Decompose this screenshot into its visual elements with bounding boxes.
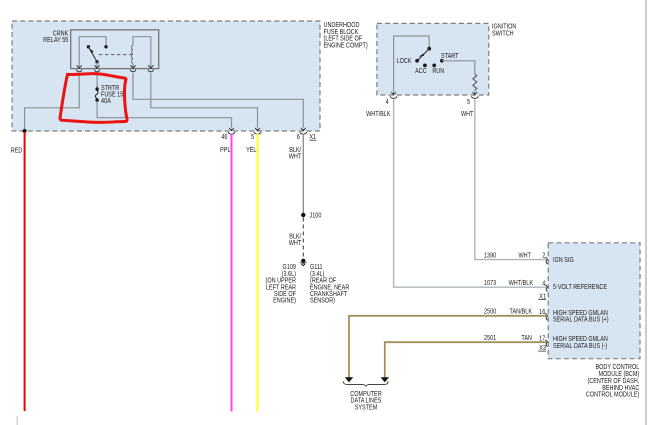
splice J100 bbox=[301, 213, 305, 217]
relay coil top wire to pin 4 bbox=[133, 37, 151, 69]
svg-text:PPL: PPL bbox=[220, 146, 231, 154]
svg-text:HIGH SPEED GMLANSERIAL DATA BU: HIGH SPEED GMLANSERIAL DATA BUS (-) bbox=[553, 336, 608, 351]
relay coil L1 bbox=[132, 45, 134, 63]
svg-text:ACC: ACC bbox=[415, 67, 427, 75]
BCM pin 2 connector symbol bbox=[545, 257, 548, 264]
svg-text:1390: 1390 bbox=[484, 252, 497, 260]
relay actuation dashed link bbox=[99, 54, 134, 56]
relay fixed contact node bbox=[104, 45, 107, 48]
svg-text:START: START bbox=[441, 52, 459, 60]
svg-text:IGNITIONSWITCH: IGNITIONSWITCH bbox=[492, 23, 517, 38]
svg-text:5-VOLT REFERENCE: 5-VOLT REFERENCE bbox=[553, 284, 607, 292]
svg-text:5: 5 bbox=[251, 133, 254, 141]
svg-text:4: 4 bbox=[542, 280, 545, 288]
ignition switch pivot node bbox=[427, 47, 431, 51]
svg-text:1073: 1073 bbox=[484, 279, 497, 287]
brace computer data lines bbox=[343, 381, 388, 386]
ignition switch wire resistor to pin 5 bbox=[474, 90, 476, 95]
svg-text:WHT/BLK: WHT/BLK bbox=[509, 279, 534, 287]
relay switch lever bbox=[88, 47, 97, 62]
ignition switch resistor bbox=[473, 74, 477, 90]
BCM pin 16 connector symbol bbox=[545, 313, 548, 320]
fuse STRTR 15 symbol bbox=[95, 86, 98, 102]
node battery feed junction bbox=[23, 129, 27, 133]
ground G109/G111 symbol bbox=[300, 259, 307, 266]
svg-text:16: 16 bbox=[539, 308, 546, 316]
fuse block pin 46 connector symbol bbox=[228, 128, 235, 134]
red annotation loop around STRTR fuse bbox=[60, 74, 127, 123]
arrowhead data bus + bbox=[345, 377, 353, 382]
svg-text:HIGH SPEED GMLANSERIAL DATA BU: HIGH SPEED GMLANSERIAL DATA BUS (+) bbox=[553, 309, 609, 324]
wire WHT ignition pin5 to BCM bbox=[475, 99, 546, 259]
svg-text:BLK/WHT: BLK/WHT bbox=[289, 146, 302, 160]
svg-text:TAN/BLK: TAN/BLK bbox=[510, 308, 533, 316]
relay pin 4 connector symbol bbox=[148, 65, 153, 72]
wire TAN/BLK data bus + bbox=[349, 316, 546, 378]
svg-text:WHT: WHT bbox=[461, 110, 474, 118]
page border bottom-left tick bbox=[16, 416, 18, 425]
svg-text:46: 46 bbox=[221, 133, 228, 141]
relay pin 2 internal riser bbox=[96, 62, 98, 69]
BCM connector X3 label bbox=[538, 344, 546, 352]
svg-text:J100: J100 bbox=[310, 212, 322, 220]
wire WHT/BLK ignition pin4 to BCM bbox=[394, 99, 546, 287]
body control module BCM box bbox=[548, 243, 640, 359]
svg-text:BLK/WHT: BLK/WHT bbox=[289, 233, 302, 248]
wire BLK/WHT ground leg (dashed) bbox=[302, 218, 304, 259]
wire fuse to pin 46 bbox=[97, 101, 231, 127]
svg-text:6: 6 bbox=[297, 133, 300, 141]
fuse block pin 6 connector symbol bbox=[300, 128, 307, 134]
svg-text:LOCK: LOCK bbox=[397, 58, 413, 66]
wire relay pin1 to battery feed node bbox=[25, 73, 80, 130]
fuse block connector X1 label bbox=[310, 133, 317, 141]
ignition switch wire START to resistor bbox=[442, 61, 475, 74]
svg-text:RED: RED bbox=[11, 147, 23, 155]
svg-text:17: 17 bbox=[539, 335, 546, 343]
svg-text:YEL: YEL bbox=[246, 146, 257, 154]
svg-text:WHT/BLK: WHT/BLK bbox=[366, 110, 391, 118]
svg-text:2500: 2500 bbox=[484, 308, 497, 316]
BCM connector X1 label bbox=[538, 293, 546, 301]
ignition switch internal wire to pin 4 bbox=[394, 36, 430, 95]
ignition switch box bbox=[377, 23, 489, 95]
svg-text:2: 2 bbox=[542, 252, 545, 260]
wire BLK/WHT ground leg (solid) bbox=[302, 134, 304, 213]
ignition switch LOCK contact bbox=[415, 59, 419, 63]
relay coil bottom wire to pin 3 bbox=[132, 63, 134, 69]
ignition switch pin 4 connector symbol bbox=[390, 92, 397, 98]
wire TAN data bus - bbox=[385, 342, 546, 377]
svg-text:IGN SIG: IGN SIG bbox=[553, 256, 574, 264]
relay pin 1 internal wire bbox=[79, 37, 106, 69]
wire RED battery feed bbox=[24, 132, 26, 411]
page border right edge bbox=[645, 0, 647, 425]
wire YEL coil feed bbox=[257, 134, 259, 412]
ignition switch ACC contact bbox=[423, 64, 427, 68]
wire PPL crank signal bbox=[231, 134, 233, 412]
relay K55 box bbox=[71, 30, 159, 69]
svg-text:4: 4 bbox=[386, 98, 389, 106]
ignition switch pin 5 connector symbol bbox=[471, 92, 478, 98]
svg-text:RUN: RUN bbox=[432, 67, 444, 75]
ignition switch lever bbox=[417, 49, 429, 61]
svg-text:WHT: WHT bbox=[518, 252, 531, 260]
relay pin 1 connector symbol bbox=[77, 65, 82, 72]
BCM pin 4 connector symbol bbox=[545, 285, 548, 292]
relay lever pivot node bbox=[95, 60, 98, 63]
wire relay pin3 to pin 6 bbox=[133, 73, 303, 128]
BCM pin 17 connector symbol bbox=[545, 340, 548, 347]
relay pin 2 connector symbol bbox=[94, 65, 99, 72]
svg-text:TAN: TAN bbox=[521, 334, 532, 342]
wire relay pin2 to fuse bbox=[96, 73, 98, 88]
fuse block pin 5 connector symbol bbox=[254, 128, 261, 134]
svg-text:5: 5 bbox=[467, 98, 470, 106]
arrowhead data bus - bbox=[381, 377, 389, 382]
relay pin 3 connector symbol bbox=[130, 65, 135, 72]
relay movable contact node bbox=[87, 45, 90, 48]
svg-text:2501: 2501 bbox=[484, 334, 497, 342]
underhood fuse block (box) bbox=[12, 21, 320, 131]
ignition switch START contact bbox=[440, 59, 444, 63]
wire relay pin4 to pin 5 bbox=[151, 73, 258, 128]
ignition switch RUN contact bbox=[432, 64, 436, 68]
